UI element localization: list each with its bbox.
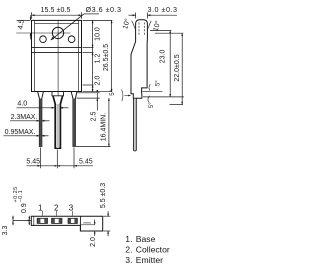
svg-text:15.5 ±0.5: 15.5 ±0.5	[40, 7, 70, 14]
svg-text:26.5±0.5: 26.5±0.5	[103, 44, 110, 71]
dimension 2.5 shoulder length	[78, 92, 100, 94]
lead 2 (center) front view	[53, 96, 63, 148]
bottom view centerline dash	[83, 222, 91, 224]
dimension 15.5 +-0.5 package width	[31, 12, 33, 18]
pin 2 leader	[56, 211, 58, 216]
bottom view divider (tab edge)	[79, 216, 81, 231]
dimension line 10.0 / 1.2 / 2.0 chain	[92, 20, 94, 91]
bottom view body-bottom extension line	[81, 224, 95, 226]
svg-text:22.0±0.5: 22.0±0.5	[174, 54, 181, 81]
lead 1 (left) front view	[38, 92, 44, 147]
5 deg label left with arc	[122, 90, 123, 102]
svg-text:2.: 2.	[125, 244, 132, 254]
0.9 +0.25 -0.1 label	[13, 186, 28, 213]
svg-text:23.0: 23.0	[160, 49, 167, 63]
front view vertical centerline	[57, 20, 59, 95]
hole horizontal centerline / 4.5 extension	[16, 32, 70, 34]
5 deg label upper right with arc	[149, 84, 150, 91]
svg-text:3.3: 3.3	[2, 226, 9, 236]
svg-text:Collector: Collector	[136, 244, 170, 254]
svg-text:3: 3	[69, 204, 74, 213]
dimension 23.0	[169, 31, 171, 97]
front view tab/body boundary line lower	[32, 52, 82, 54]
svg-text:3.: 3.	[125, 255, 132, 265]
10 deg draft arc right	[148, 21, 151, 29]
pin 3 leader	[72, 211, 74, 216]
lead 3 (right) front view	[71, 92, 77, 147]
dimension 0.9 +0.25/-0.1 lead thickness	[28, 216, 30, 225]
front view tab/body boundary line upper	[32, 47, 82, 49]
left small hole	[40, 36, 47, 43]
leader line from dia 3.6 label to mounting hole	[84, 13, 99, 15]
front view: package body outline	[32, 20, 82, 91]
dimension 2.0 boss extra thickness	[94, 220, 96, 225]
front view inner right edge line	[78, 20, 80, 91]
svg-text:Emitter: Emitter	[136, 255, 163, 265]
10 deg draft arc left	[132, 21, 135, 29]
bottom view inner left line	[33, 216, 35, 225]
bottom view outline	[31, 216, 102, 231]
bottom view lead stub 1	[37, 218, 47, 223]
dimension 16.4MIN lead length	[108, 98, 110, 146]
svg-text:10°: 10°	[121, 18, 132, 30]
svg-text:5.5 ±0.3: 5.5 ±0.3	[100, 183, 107, 208]
5 deg label lower right with arc	[148, 96, 149, 103]
side view body left profile	[131, 38, 142, 99]
side view lead	[134, 99, 137, 151]
svg-text:3.0 ±0.3: 3.0 ±0.3	[148, 5, 178, 14]
svg-text:Base: Base	[136, 234, 156, 244]
side view: tab with rounded top	[136, 20, 148, 38]
front view inner top edge line	[35, 23, 79, 25]
svg-text:5°: 5°	[154, 80, 161, 86]
svg-text:2.5: 2.5	[91, 112, 98, 122]
dimension 22.0 +-0.5	[181, 33, 183, 104]
svg-text:−0.1: −0.1	[18, 190, 24, 203]
right small hole	[68, 36, 75, 43]
pin 1 leader	[41, 211, 43, 216]
svg-text:10.0: 10.0	[95, 27, 102, 41]
svg-text:0.95MAX.: 0.95MAX.	[5, 129, 36, 136]
svg-text:1.2: 1.2	[95, 54, 102, 64]
svg-text:2.0: 2.0	[95, 76, 102, 86]
bottom view lead stub 2	[52, 218, 62, 223]
side view hidden hole line right	[143, 23, 145, 37]
svg-text:4.5: 4.5	[15, 19, 26, 30]
svg-text:5.45: 5.45	[79, 158, 93, 165]
extension lines right of front view	[83, 19, 113, 21]
svg-text:5°: 5°	[109, 89, 116, 95]
dimension 5.45 / 5.45 lead pitch	[40, 148, 42, 169]
dimension 3.3 body thickness	[12, 216, 14, 225]
front view bottom center boss	[52, 92, 64, 96]
dimension 4.5 hole center from top	[30, 15, 32, 20]
svg-text:1.: 1.	[125, 234, 132, 244]
svg-text:16.4MIN.: 16.4MIN.	[101, 113, 108, 141]
side view body right profile	[142, 38, 148, 99]
dimension 5.5 +-0.3 overall thickness	[104, 215, 111, 217]
side view hidden hole line left	[138, 23, 140, 37]
dimension 26.5 +-0.5 overall height	[111, 20, 113, 91]
bottom view lead stub 3	[68, 218, 77, 223]
side view right extension lines	[150, 30, 171, 32]
mounting hole (diam 3.6)	[52, 27, 63, 38]
dimension 3.0 +-0.3 tab thickness	[135, 13, 137, 19]
svg-text:Ø3.6 ±0.3: Ø3.6 ±0.3	[85, 5, 121, 14]
svg-text:0.9: 0.9	[21, 203, 28, 213]
svg-text:4.0: 4.0	[17, 100, 27, 107]
front view inner left edge line	[34, 20, 36, 91]
svg-text:5°: 5°	[148, 102, 155, 108]
svg-text:5.45: 5.45	[26, 158, 40, 165]
svg-text:2.0: 2.0	[90, 237, 97, 247]
svg-text:2.3MAX.: 2.3MAX.	[11, 114, 38, 121]
